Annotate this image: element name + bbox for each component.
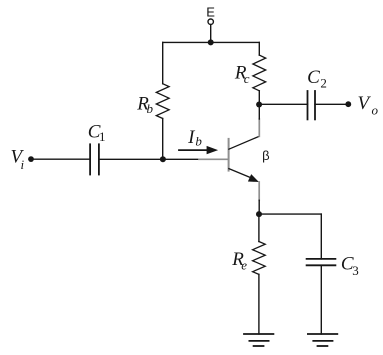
svg-text:o: o bbox=[372, 103, 379, 118]
ground under C3 bbox=[308, 334, 337, 346]
capacitor C2 bbox=[308, 91, 316, 119]
junction dot top rail bbox=[208, 39, 214, 45]
resistor Rb bbox=[156, 84, 169, 119]
arrow Ib bbox=[179, 146, 218, 154]
wire emitter node to Re bbox=[258, 214, 260, 241]
transistor Q1 emitter arrowhead bbox=[248, 174, 259, 182]
wire Rb to base rail bbox=[162, 119, 164, 160]
junction dot base node bbox=[160, 156, 166, 162]
wire emitter node to C3 branch bbox=[259, 213, 321, 215]
svg-text:i: i bbox=[21, 157, 25, 172]
svg-text:C: C bbox=[307, 67, 320, 88]
svg-text:V: V bbox=[358, 93, 372, 114]
transistor Q1 base bar bbox=[228, 139, 230, 171]
svg-text:1: 1 bbox=[99, 129, 106, 144]
transistor Q1 emitter diagonal bbox=[229, 169, 252, 178]
capacitor C1 bbox=[90, 144, 99, 174]
transistor Q1 emitter lead (grey) bbox=[258, 182, 260, 200]
svg-text:b: b bbox=[147, 101, 154, 116]
wire emitter to emitter node bbox=[258, 200, 260, 214]
svg-text:b: b bbox=[195, 133, 202, 148]
wire top rail to Rb bbox=[162, 42, 164, 83]
wire Rc to collector node bbox=[258, 91, 260, 105]
wire C2 to Vo bbox=[315, 103, 348, 105]
svg-text:c: c bbox=[244, 71, 250, 86]
junction dot collector node bbox=[256, 102, 262, 108]
wire collector node to transistor bbox=[258, 105, 260, 119]
wire Re to ground bbox=[258, 274, 260, 334]
wire base stub (transistor lead, grey) bbox=[199, 158, 229, 160]
terminal dot Vi bbox=[28, 156, 34, 162]
junction dot emitter node bbox=[256, 211, 262, 217]
wire E terminal to top rail bbox=[210, 25, 212, 43]
ground under Re bbox=[244, 334, 273, 346]
transistor Q1 collector lead (grey) bbox=[258, 119, 260, 136]
svg-text:2: 2 bbox=[320, 75, 327, 90]
terminal circle E bbox=[208, 19, 213, 24]
svg-text:e: e bbox=[241, 257, 247, 272]
wire collector node to C2 bbox=[259, 103, 307, 105]
transistor Q1 collector diagonal bbox=[229, 136, 259, 149]
wire C3 branch down bbox=[320, 214, 322, 259]
wire C3 to ground bbox=[320, 265, 322, 334]
wire Vi to C1 bbox=[31, 158, 90, 160]
wire C1 to base node bbox=[99, 158, 199, 160]
svg-text:β: β bbox=[262, 148, 269, 163]
resistor Rc bbox=[253, 55, 266, 91]
svg-text:E: E bbox=[206, 4, 215, 19]
svg-text:3: 3 bbox=[352, 263, 359, 278]
wire top rail bbox=[163, 41, 260, 43]
terminal dot Vo bbox=[345, 101, 351, 107]
resistor Re bbox=[253, 242, 266, 275]
capacitor C3 bbox=[307, 259, 336, 265]
wire top rail to Rc bbox=[258, 42, 260, 55]
